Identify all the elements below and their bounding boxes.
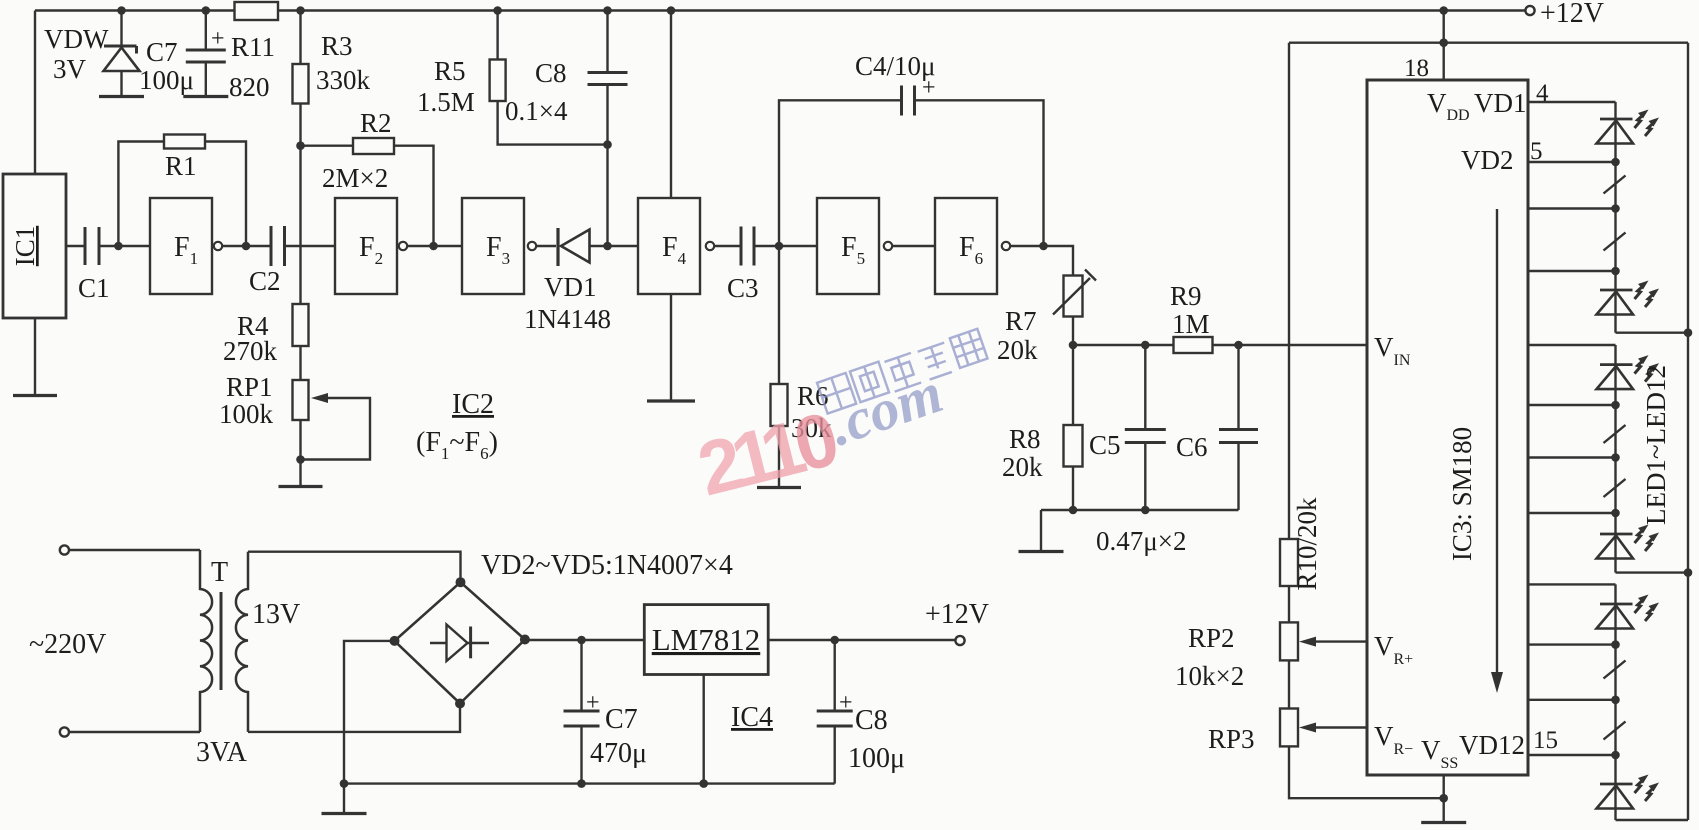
svg-text:VD1: VD1 bbox=[1474, 88, 1527, 118]
junction chain3 c bbox=[1611, 751, 1620, 760]
inverter bubble F5 bbox=[884, 242, 892, 250]
junction C8 top bbox=[830, 636, 839, 645]
svg-text:330k: 330k bbox=[316, 65, 371, 95]
wire RP3 bottom to VSS ground bbox=[1289, 746, 1444, 798]
wire R3 bottom lead bbox=[299, 104, 301, 146]
svg-text:R8: R8 bbox=[1009, 424, 1041, 454]
wire IC3 output pin line 11 bbox=[1528, 699, 1616, 701]
capacitor C7 (100u, top) bbox=[186, 11, 226, 97]
wire C1 to F1 bbox=[99, 245, 150, 247]
svg-text:C8: C8 bbox=[855, 705, 888, 736]
wire +12V rail right segment bbox=[278, 9, 1526, 11]
skip mark chain1 lower bbox=[1604, 233, 1626, 251]
LED LED12 (chain3 bottom) bbox=[1597, 775, 1660, 809]
wire VD1 to F4 input bbox=[590, 245, 639, 247]
wire +12V rail left segment bbox=[35, 9, 235, 11]
inverter bubble F2 bbox=[399, 242, 407, 250]
gate F3 bbox=[462, 198, 524, 294]
wire R1 right segment bbox=[205, 142, 246, 247]
wire secondary top to bridge bbox=[248, 552, 461, 583]
svg-text:1.5M: 1.5M bbox=[417, 87, 475, 117]
wire chain 1 to bus bbox=[1616, 332, 1689, 334]
gate F4 bbox=[638, 198, 700, 294]
svg-text:RP3: RP3 bbox=[1208, 724, 1255, 754]
skip mark chain2 upper bbox=[1604, 425, 1626, 443]
wire VDD lead (pin 18) bbox=[1442, 11, 1444, 81]
wire F5 output to F6 bbox=[892, 245, 935, 247]
junction rail-R3 bbox=[296, 6, 305, 15]
terminal +12V bbox=[1525, 6, 1534, 15]
junction bridge right vertex bbox=[520, 635, 530, 645]
resistor R2 bbox=[353, 138, 394, 154]
capacitor C8 (100u) bbox=[817, 640, 853, 784]
wire RP2 wiper arrow (VR+) bbox=[1299, 637, 1367, 647]
skip mark chain3 lower bbox=[1604, 722, 1626, 740]
wire filter bottom rail bbox=[1041, 509, 1239, 511]
inverter bubble F1 bbox=[214, 242, 222, 250]
junction rail-F4 bbox=[667, 6, 676, 15]
wire C3 to F5 input bbox=[754, 245, 817, 247]
gate F2 bbox=[335, 198, 397, 294]
ground (IC1) bbox=[13, 394, 57, 397]
capacitor C4 10u bbox=[902, 86, 915, 116]
junction chain3 b bbox=[1611, 696, 1620, 705]
svg-text:R2: R2 bbox=[360, 108, 392, 138]
svg-text:1N4148: 1N4148 bbox=[524, 304, 611, 334]
scan direction arrow inside IC3 bbox=[1491, 209, 1503, 693]
LED LED1 bbox=[1597, 110, 1660, 144]
resistor R8 bbox=[1064, 425, 1083, 467]
svg-text:~220V: ~220V bbox=[29, 629, 106, 660]
wire IC1 bottom lead bbox=[34, 318, 36, 396]
svg-text:R11: R11 bbox=[231, 32, 275, 62]
wire chain 3 to bus bbox=[1616, 819, 1689, 821]
wire bridge positive to LM7812 bbox=[525, 639, 644, 641]
wire LM7812 ground pin bbox=[703, 675, 705, 784]
junction bridge top vertex bbox=[456, 577, 466, 587]
svg-text:VD12: VD12 bbox=[1459, 730, 1525, 760]
wire IC3 output pin line 12 bbox=[1528, 754, 1616, 756]
inverter bubble F3 bbox=[528, 242, 536, 250]
wire IC1 to C1 bbox=[66, 245, 85, 247]
wire LED chain 2 vertical bbox=[1614, 345, 1616, 573]
svg-text:T: T bbox=[211, 557, 228, 588]
svg-text:3VA: 3VA bbox=[196, 737, 248, 768]
ground (F4) bbox=[647, 399, 695, 402]
svg-text:IC2: IC2 bbox=[452, 389, 494, 420]
svg-text:RP2: RP2 bbox=[1188, 623, 1235, 653]
wire VDW top lead bbox=[120, 11, 122, 47]
svg-text:10k×2: 10k×2 bbox=[1175, 661, 1244, 691]
IC U1 (IC1 microphone/input block) bbox=[3, 174, 66, 318]
wire F4 VDD lead bbox=[670, 11, 672, 199]
svg-text:R1: R1 bbox=[165, 151, 197, 181]
wire R8 top lead bbox=[1072, 345, 1074, 425]
junction C5 bottom bbox=[1141, 506, 1150, 515]
wire R3node to R4 (crosses signal row) bbox=[299, 146, 301, 304]
junction F2 output node bbox=[429, 242, 438, 251]
LED LED8 (chain2 bottom) bbox=[1597, 525, 1660, 559]
wire IC3 output pin line 4 bbox=[1528, 270, 1616, 272]
diode symbol inside bridge bbox=[430, 625, 489, 662]
wire chain 2 to bus bbox=[1616, 571, 1689, 573]
arrow of R7 bbox=[1053, 270, 1096, 315]
svg-text:VDW: VDW bbox=[44, 24, 109, 54]
ground (C7) bbox=[183, 95, 228, 98]
junction C5 top bbox=[1141, 341, 1150, 350]
capacitor C5 bbox=[1125, 345, 1166, 510]
junction C7 bottom-rail bbox=[577, 779, 586, 788]
junction bus-chain2 bbox=[1684, 568, 1693, 577]
wire F4 ground lead bbox=[670, 294, 672, 401]
junction VD1-C8 node bbox=[603, 242, 612, 251]
wire IC3 output pin line 2 bbox=[1528, 161, 1616, 163]
svg-text:C7: C7 bbox=[605, 704, 638, 735]
wire R3 top lead bbox=[299, 11, 301, 65]
wire C2 to F2 input bbox=[285, 245, 336, 247]
svg-text:1M: 1M bbox=[1172, 309, 1210, 339]
wire R10-RP2 bbox=[1288, 586, 1290, 622]
ground (R6) bbox=[757, 486, 801, 489]
wire F6 output bbox=[1010, 245, 1043, 247]
junction node A (R1 tap) bbox=[114, 242, 123, 251]
svg-text:20k: 20k bbox=[1002, 452, 1043, 482]
resistor R10 bbox=[1280, 539, 1298, 586]
junction ground rail left bbox=[340, 779, 349, 788]
svg-text:+: + bbox=[211, 26, 225, 52]
potentiometer RP3 bbox=[1280, 709, 1298, 747]
potentiometer RP1 bbox=[293, 380, 309, 420]
wire R10 column upper bbox=[1288, 43, 1290, 539]
junction VSS-RP3 bbox=[1439, 794, 1448, 803]
svg-text:0.47μ×2: 0.47μ×2 bbox=[1096, 526, 1186, 556]
wire RP1 bottom lead bbox=[299, 420, 301, 487]
LED LED9 (chain3 top) bbox=[1597, 595, 1660, 629]
svg-text:R7: R7 bbox=[1005, 306, 1037, 336]
junction chain2 c bbox=[1611, 509, 1620, 518]
wire R1 left segment bbox=[118, 142, 164, 247]
wire IC3 output pin line 3 bbox=[1528, 207, 1616, 209]
svg-text:LED1~LED12: LED1~LED12 bbox=[1641, 365, 1671, 525]
wire R6 bottom lead bbox=[778, 426, 780, 488]
wire R8 bottom lead bbox=[1072, 467, 1074, 511]
wire C8 node down to VD1 node bbox=[606, 145, 608, 246]
wire F1 node to C2 bbox=[246, 245, 271, 247]
svg-text:C7: C7 bbox=[146, 37, 178, 67]
wire IC3 output pin line 10 bbox=[1528, 643, 1616, 645]
terminal ~220V live bbox=[60, 545, 69, 554]
capacitor C2 bbox=[271, 226, 285, 266]
junction C7 top bbox=[577, 636, 586, 645]
wire F2 output bbox=[407, 245, 433, 247]
bridge rectifier VD2~VD5 diamond bbox=[395, 582, 525, 703]
svg-text:+: + bbox=[586, 690, 600, 716]
svg-text:20k: 20k bbox=[997, 335, 1038, 365]
gate F1 bbox=[150, 198, 212, 294]
wire supply ground rail bbox=[344, 782, 835, 784]
terminal ~220V neutral bbox=[60, 727, 69, 736]
svg-text:C1: C1 bbox=[78, 273, 110, 303]
svg-text:100k: 100k bbox=[219, 399, 274, 429]
svg-text:13V: 13V bbox=[252, 599, 300, 630]
svg-text:C2: C2 bbox=[249, 266, 281, 296]
svg-text:C8: C8 bbox=[535, 58, 567, 88]
transformer T primary winding bbox=[200, 550, 212, 732]
skip mark chain3 upper bbox=[1604, 661, 1626, 679]
svg-text:IC3: SM180: IC3: SM180 bbox=[1447, 427, 1477, 561]
junction chain2 b bbox=[1611, 453, 1620, 462]
svg-text:3V: 3V bbox=[53, 54, 87, 84]
junction C3-R6 node bbox=[775, 242, 784, 251]
wire F4 output to C3 bbox=[714, 245, 741, 247]
junction C6 top bbox=[1234, 341, 1243, 350]
wire R5 top lead bbox=[496, 11, 498, 60]
wire R2 left segment bbox=[301, 144, 354, 146]
resistor R11 bbox=[235, 2, 279, 20]
resistor R3 bbox=[293, 64, 309, 104]
wire second +12V rail bbox=[1289, 42, 1688, 44]
resistor R1 bbox=[164, 135, 205, 149]
watermark 21IC logo bbox=[690, 328, 988, 513]
junction rail-VDW bbox=[117, 6, 126, 15]
junction rail-C7 bbox=[202, 6, 211, 15]
LED LED4 (chain1 bottom) bbox=[1597, 281, 1660, 315]
junction F1 output node bbox=[242, 242, 251, 251]
wire R6 top lead bbox=[778, 246, 780, 384]
junction R8 bottom bbox=[1069, 506, 1078, 515]
junction R5-C8 bbox=[603, 140, 612, 149]
svg-text:R5: R5 bbox=[434, 56, 466, 86]
svg-text:100μ: 100μ bbox=[848, 743, 905, 774]
wire LM7812 output bbox=[768, 639, 955, 641]
svg-text:IC4: IC4 bbox=[731, 702, 773, 733]
wire R2 right segment down to F3 input bbox=[394, 146, 434, 246]
inverter bubble F4 bbox=[706, 242, 714, 250]
svg-text:C4/10μ: C4/10μ bbox=[855, 51, 936, 81]
junction bridge left vertex bbox=[390, 636, 400, 646]
resistor R5 bbox=[490, 60, 506, 102]
svg-text:VD1: VD1 bbox=[544, 272, 597, 302]
wire F1 output bbox=[222, 245, 246, 247]
wire RP1 wiper arm bbox=[301, 393, 371, 460]
wire LED chain 3 vertical bbox=[1614, 584, 1616, 820]
svg-text:LM7812: LM7812 bbox=[652, 622, 761, 657]
svg-text:R9: R9 bbox=[1170, 281, 1202, 311]
junction RP1 wiper return bbox=[296, 455, 305, 464]
wire LED chain 1 vertical bbox=[1614, 102, 1616, 333]
wire R5 bottom to C8 node bbox=[498, 101, 608, 145]
svg-text:+12V: +12V bbox=[1540, 0, 1604, 29]
wire R7 bottom lead bbox=[1072, 317, 1074, 346]
svg-text:+: + bbox=[839, 690, 853, 716]
wire IC1 top lead bbox=[34, 11, 36, 175]
resistor R6 bbox=[771, 384, 788, 426]
junction bridge bottom vertex bbox=[455, 699, 465, 709]
junction VDD-second rail bbox=[1439, 38, 1448, 47]
junction bus-chain1 bbox=[1684, 328, 1693, 337]
junction rail-VDD bbox=[1439, 6, 1448, 15]
svg-text:0.1×4: 0.1×4 bbox=[505, 96, 568, 126]
wire VIN row right (crosses R10 line) bbox=[1213, 344, 1367, 346]
ground (VDW) bbox=[99, 95, 144, 98]
junction rail-C8 bbox=[603, 6, 612, 15]
junction chain1 b bbox=[1611, 204, 1620, 213]
wire RP2-RP3 bbox=[1288, 660, 1290, 708]
wire IC3 output pin line 8 bbox=[1528, 512, 1616, 514]
ground (filter) bbox=[1019, 550, 1064, 553]
svg-text:820: 820 bbox=[229, 72, 270, 102]
potentiometer RP2 bbox=[1280, 622, 1298, 660]
resistor R9 bbox=[1174, 337, 1213, 353]
junction rail-R5 bbox=[493, 6, 502, 15]
zener diode VDW 3V bbox=[104, 46, 140, 97]
ground (RP1) bbox=[279, 485, 323, 488]
wire filter ground lead bbox=[1040, 510, 1042, 552]
resistor R4 bbox=[293, 304, 309, 346]
capacitor C7 (470u) bbox=[564, 640, 600, 784]
IC U4 LM7812 regulator bbox=[644, 605, 768, 675]
svg-text:270k: 270k bbox=[223, 336, 278, 366]
svg-text:C3: C3 bbox=[727, 273, 759, 303]
svg-text:R3: R3 bbox=[321, 31, 353, 61]
svg-text:100μ: 100μ bbox=[139, 65, 194, 95]
capacitor C3 bbox=[741, 227, 754, 266]
gate F5 bbox=[817, 198, 879, 294]
wire VSS lead bbox=[1442, 775, 1444, 823]
svg-text:15: 15 bbox=[1533, 727, 1558, 754]
wire IC3 output pin line 5 bbox=[1528, 344, 1616, 346]
terminal +12V output bbox=[955, 636, 964, 645]
svg-text:RP1: RP1 bbox=[226, 372, 273, 402]
capacitor C1 bbox=[85, 227, 99, 265]
svg-text:VD2~VD5:1N4007×4: VD2~VD5:1N4007×4 bbox=[481, 550, 733, 581]
junction chain1 a bbox=[1611, 158, 1620, 167]
wire IC3 output pin line 9 bbox=[1528, 583, 1616, 585]
wire C4 loop left bbox=[779, 100, 902, 246]
inverter bubble F6 bbox=[1002, 242, 1010, 250]
wire F6 node to R7 bbox=[1044, 246, 1074, 276]
wire right LED bus bbox=[1687, 43, 1689, 820]
wire IC3 output pin line 7 bbox=[1528, 456, 1616, 458]
wire secondary bottom to bridge bbox=[248, 704, 460, 732]
capacitor C8 (0.1x4) bbox=[588, 11, 628, 145]
wire mains bottom bbox=[69, 731, 200, 733]
junction R3-R2 node bbox=[296, 141, 305, 150]
junction F6 output node bbox=[1039, 242, 1048, 251]
svg-text:R10/20k: R10/20k bbox=[1292, 497, 1322, 591]
transformer T secondary winding bbox=[236, 552, 248, 732]
wire C4 loop right bbox=[915, 100, 1044, 246]
wire RP3 wiper arrow (VR-) bbox=[1299, 723, 1367, 733]
wire R4-RP1 bbox=[299, 346, 301, 380]
ground (VSS) bbox=[1421, 821, 1466, 824]
junction LM7812 gnd-rail bbox=[699, 779, 708, 788]
transformer T core bbox=[220, 592, 223, 690]
wire to F3 input bbox=[434, 245, 463, 247]
capacitor C6 bbox=[1219, 345, 1258, 510]
wire mains top bbox=[69, 549, 200, 551]
junction chain3 a bbox=[1611, 640, 1620, 649]
wire VIN row left bbox=[1073, 344, 1174, 346]
svg-text:2M×2: 2M×2 bbox=[322, 163, 388, 193]
svg-text:IC1: IC1 bbox=[10, 226, 40, 267]
diode VD1 1N4148 bbox=[558, 228, 590, 266]
ground (supply) bbox=[322, 812, 367, 815]
LED LED5 (chain2 top) bbox=[1597, 355, 1660, 389]
wire bridge negative down (crosses AC wire) bbox=[344, 641, 395, 814]
IC U3 SM180 (IC3) bbox=[1367, 80, 1528, 775]
rheostat R7 bbox=[1064, 276, 1083, 317]
wire F3 output to VD1 bbox=[536, 245, 556, 247]
svg-text:470μ: 470μ bbox=[590, 738, 647, 769]
svg-text:C6: C6 bbox=[1176, 432, 1208, 462]
svg-text:VD2: VD2 bbox=[1461, 145, 1514, 175]
junction VIN node left bbox=[1069, 341, 1078, 350]
skip mark chain1 upper bbox=[1604, 176, 1626, 194]
svg-text:+12V: +12V bbox=[925, 599, 989, 630]
gate F6 bbox=[935, 198, 997, 294]
svg-text:18: 18 bbox=[1404, 55, 1429, 82]
wire IC3 output pin line 1 bbox=[1528, 101, 1616, 103]
wire IC3 output pin line 6 bbox=[1528, 404, 1616, 406]
skip mark chain2 lower bbox=[1604, 479, 1626, 497]
svg-text:C5: C5 bbox=[1089, 430, 1121, 460]
junction chain2 a bbox=[1611, 401, 1620, 410]
junction chain1 c bbox=[1611, 267, 1620, 276]
